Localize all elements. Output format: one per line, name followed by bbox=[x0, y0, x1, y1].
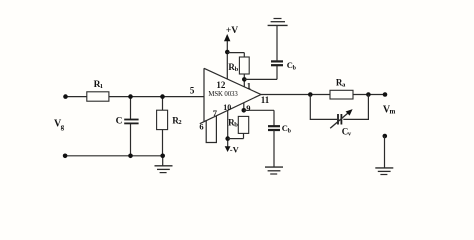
wire C branch top bbox=[130, 97, 132, 120]
svg-text:C: C bbox=[116, 117, 123, 127]
terminal Vm+ bbox=[383, 92, 388, 97]
resistor Rb (upper) bbox=[227, 53, 249, 87]
ground (top, inverted) bbox=[268, 19, 288, 26]
svg-text:b: b bbox=[235, 66, 239, 73]
wire ground stub left bbox=[162, 156, 164, 166]
node: ground junction bottom bbox=[160, 154, 165, 159]
pins 6-7 strap (U shape under triangle) bbox=[206, 116, 216, 143]
svg-text:g: g bbox=[61, 123, 65, 131]
ground (under lower Cb) bbox=[265, 167, 283, 174]
svg-text:6: 6 bbox=[199, 122, 203, 132]
op-amp U1 MSK 0033 triangle bbox=[200, 68, 261, 123]
ground (bottom right) bbox=[375, 168, 393, 175]
svg-text:9: 9 bbox=[246, 103, 250, 113]
label Vm bbox=[383, 104, 396, 115]
svg-text:1: 1 bbox=[100, 83, 103, 90]
node: R2 top junction bbox=[160, 94, 165, 99]
node: C bottom junction bbox=[128, 154, 133, 159]
resistor Rb (lower) bbox=[228, 103, 249, 139]
ground (left, under R2) bbox=[155, 166, 173, 173]
wire Vm- to ground bbox=[384, 136, 386, 168]
capacitor C bbox=[116, 117, 139, 127]
svg-text:m: m bbox=[390, 108, 396, 116]
-V supply arrow bbox=[225, 111, 240, 155]
node: output right junction bbox=[366, 92, 371, 97]
wire input bottom bbox=[65, 155, 163, 157]
svg-text:5: 5 bbox=[190, 85, 195, 95]
label Vg bbox=[54, 119, 65, 131]
svg-text:a: a bbox=[342, 81, 346, 88]
capacitor Cb (upper) bbox=[271, 60, 297, 71]
wire output pin 11 bbox=[261, 94, 385, 96]
wire input top bbox=[66, 96, 87, 98]
svg-text:1: 1 bbox=[247, 81, 251, 91]
+V supply arrow bbox=[224, 26, 238, 79]
node: pin 9 junction bbox=[242, 108, 247, 113]
wire Cb (lower) to ground bbox=[273, 130, 275, 167]
svg-text:12: 12 bbox=[216, 80, 226, 90]
wire C branch bottom bbox=[130, 124, 132, 156]
terminal Vg- bbox=[63, 154, 68, 159]
svg-text:b: b bbox=[234, 122, 238, 129]
node: -V / Rb junction bbox=[225, 136, 230, 141]
terminal Vm- bbox=[383, 134, 388, 139]
svg-text:2: 2 bbox=[178, 119, 181, 126]
node: output left junction bbox=[308, 92, 313, 97]
wire pin9 to Cb (lower) bbox=[244, 109, 274, 111]
node: pin 1 junction bbox=[242, 77, 247, 82]
wire Cb (upper) vertical bbox=[276, 65, 278, 79]
node: +V / Rb junction bbox=[225, 50, 230, 55]
svg-text:MSK 0033: MSK 0033 bbox=[208, 91, 238, 98]
svg-text:b: b bbox=[288, 128, 292, 134]
wire R1 to opamp pin 5 bbox=[109, 96, 204, 98]
wire Cv branch right bbox=[343, 95, 368, 120]
svg-text:b: b bbox=[293, 65, 297, 71]
node: R1/C junction bbox=[128, 94, 133, 99]
wire Cv branch left bbox=[310, 95, 337, 120]
capacitor Cb (lower) bbox=[268, 123, 292, 134]
svg-text:11: 11 bbox=[261, 95, 270, 105]
wire pin1 to Cb (upper) bbox=[244, 78, 277, 80]
svg-text:+V: +V bbox=[226, 26, 238, 36]
wire Cb (upper) to ground bbox=[276, 25, 278, 61]
resistor R1 bbox=[87, 80, 109, 101]
wire Cb (lower) vertical top bbox=[273, 110, 275, 126]
svg-text:v: v bbox=[348, 130, 352, 137]
wire R2 branch bottom bbox=[162, 130, 164, 156]
terminal Vg+ bbox=[63, 94, 68, 99]
variable capacitor Cv bbox=[330, 109, 352, 137]
svg-text:-V: -V bbox=[230, 144, 240, 154]
resistor R2 bbox=[157, 110, 182, 129]
resistor Ra bbox=[330, 77, 353, 99]
wire R2 branch top bbox=[162, 97, 164, 111]
